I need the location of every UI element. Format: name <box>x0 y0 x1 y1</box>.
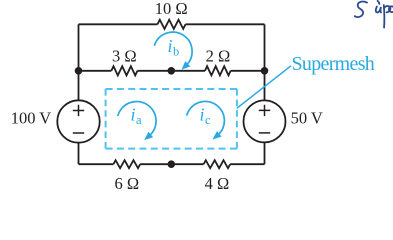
svg-text:3 Ω: 3 Ω <box>112 46 137 65</box>
svg-text:c: c <box>205 113 211 127</box>
svg-text:6 Ω: 6 Ω <box>114 174 139 193</box>
svg-text:2 Ω: 2 Ω <box>206 46 231 65</box>
svg-text:100 V: 100 V <box>11 108 52 127</box>
svg-text:Supermesh: Supermesh <box>292 53 375 75</box>
svg-text:a: a <box>136 113 142 127</box>
svg-text:i: i <box>131 105 136 125</box>
svg-text:50 V: 50 V <box>291 108 323 127</box>
svg-text:b: b <box>173 45 179 59</box>
svg-text:i: i <box>168 36 173 56</box>
svg-text:10 Ω: 10 Ω <box>155 0 188 18</box>
svg-text:i: i <box>200 105 205 125</box>
svg-text:4 Ω: 4 Ω <box>205 174 230 193</box>
